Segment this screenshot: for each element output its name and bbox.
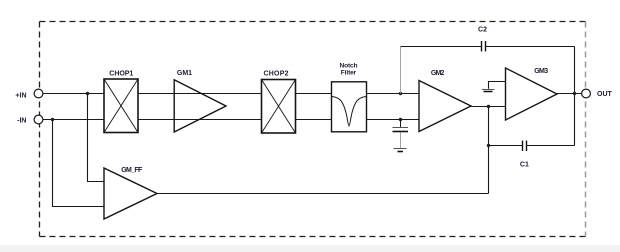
wire C1 up to output node	[574, 94, 576, 146]
wire CHOP1 to CHOP2 lower rail	[138, 119, 262, 121]
wire GM3 reference input	[489, 82, 506, 89]
terminal -IN	[34, 115, 43, 124]
svg-text:GM2: GM2	[431, 70, 445, 77]
wire cap to ground	[400, 133, 402, 149]
dashed enclosure border bottom	[40, 236, 586, 238]
svg-text:+IN: +IN	[15, 92, 26, 99]
wire CHOP1 to CHOP2 upper rail	[138, 93, 262, 95]
wire Notch to GM2 lower rail	[367, 119, 420, 121]
ground (GM3 reference)	[482, 89, 495, 91]
node filter cap tap	[399, 118, 402, 121]
svg-text:GM3: GM3	[534, 68, 548, 75]
capacitor to ground (filter)	[393, 127, 409, 129]
node output junction	[573, 92, 576, 95]
wire CHOP2 to Notch upper rail	[296, 93, 332, 95]
capacitor C2	[481, 41, 483, 52]
wire C2 top left segment	[401, 46, 482, 48]
wire C1 right segment	[527, 145, 575, 147]
wire GM3 output	[557, 93, 582, 95]
wire C2 top right segment	[486, 46, 575, 48]
wire vertical +IN to GM_FF upper input	[88, 94, 105, 182]
wire CHOP2 to Notch lower rail	[296, 119, 332, 121]
svg-text:GM_FF: GM_FF	[121, 167, 143, 174]
wire vertical -IN to GM_FF lower input	[53, 120, 105, 207]
svg-text:GM1: GM1	[177, 70, 192, 77]
node tap -IN to GM_FF	[51, 118, 54, 121]
dashed enclosure border left	[39, 22, 41, 237]
wire C2 down to output node	[574, 47, 576, 94]
notch filter block	[332, 82, 367, 132]
dashed enclosure border top	[40, 21, 586, 23]
op-amp GM3	[506, 68, 558, 120]
ground (filter)	[394, 148, 407, 150]
node C2 tap	[399, 92, 402, 95]
svg-text:Filter: Filter	[341, 69, 357, 76]
chopper CHOP1	[104, 79, 138, 133]
node tap +IN to GM_FF	[86, 92, 89, 95]
wire summing bus vertical	[488, 107, 490, 194]
node summing junction	[487, 105, 490, 108]
wire -IN rail to CHOP1	[43, 119, 104, 121]
wire C2 branch up	[400, 47, 402, 94]
wire +IN rail to CHOP1	[43, 93, 104, 95]
op-amp GM_FF	[104, 168, 157, 219]
svg-text:-IN: -IN	[17, 117, 26, 124]
op-amp GM2	[419, 81, 471, 132]
wire filter cap branch down	[400, 120, 402, 128]
dashed enclosure border right (gray)	[585, 22, 587, 237]
wire Notch to GM2 upper rail	[367, 93, 420, 95]
wire GM_FF output to summing bus	[157, 193, 489, 195]
wire GM2 output to GM3	[471, 106, 506, 108]
op-amp GM1	[174, 80, 226, 132]
chopper CHOP2	[262, 80, 296, 134]
node C1 tap	[487, 144, 490, 147]
svg-text:OUT: OUT	[597, 91, 613, 98]
capacitor C1	[522, 141, 524, 152]
svg-text:C2: C2	[478, 26, 487, 33]
svg-text:CHOP1: CHOP1	[109, 70, 133, 77]
wire C1 left segment	[489, 145, 523, 147]
svg-text:CHOP2: CHOP2	[264, 71, 289, 78]
terminal +IN	[34, 89, 43, 98]
terminal OUT	[582, 89, 591, 98]
svg-text:C1: C1	[520, 161, 529, 168]
